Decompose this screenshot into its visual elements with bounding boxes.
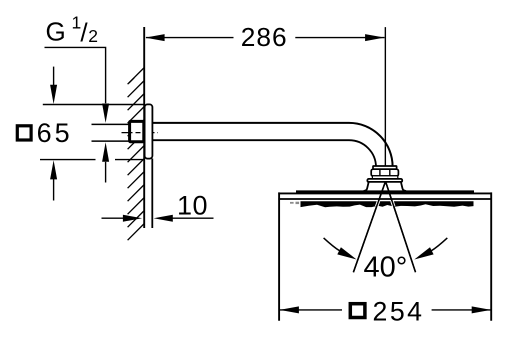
wall hatching [128,68,144,240]
right curved arrow of 40 dim [431,238,447,251]
shower head rim line [278,198,491,200]
10 dim left line + arrow [102,217,125,219]
centerline of pipe [122,132,159,134]
nozzle band [301,201,474,207]
shower arm top line [152,122,349,124]
shower arm bottom line [152,139,349,141]
shower arm inner bend [349,140,376,168]
shower head top thick dome band [296,190,474,193]
svg-text:10: 10 [177,190,208,220]
flange face extension line (for 10 dim) [151,159,153,229]
254 right arrow [472,306,491,313]
cone lip [367,179,402,182]
wall line (also left extension of 286 dim) [143,27,145,228]
svg-text:2: 2 [88,26,98,46]
svg-text:40°: 40° [364,252,408,284]
254 dim line [280,309,342,311]
wall flange escutcheon [145,104,153,158]
flare washer at arm end [373,166,397,169]
shower head right side + extension line [490,192,492,320]
40 deg left ray (lower part over band) [353,183,385,273]
square symbol of 254 [350,304,365,318]
40 deg right ray (lower part over band) [386,183,416,273]
65 dim top extension line [43,104,144,106]
286 left arrow [145,34,164,41]
shower head top thin line [278,192,491,194]
nut flats [379,169,381,176]
supply pipe stub behind wall [92,123,131,125]
40 deg left ray [353,183,385,273]
svg-text:G: G [46,17,66,47]
254 left arrow [280,306,299,313]
10 dim right arrow + line [154,215,173,222]
40 deg rays white halo through nozzle band [377,201,394,207]
nozzle band lead-in speckles [290,202,299,204]
svg-text:286: 286 [241,22,288,52]
lower washer [372,176,397,179]
svg-text:254: 254 [373,296,425,326]
65 dim bottom arrow [53,179,55,201]
G 1/2 lower arrow (up) [105,162,107,183]
G 1/2 leader [45,47,106,103]
286 dim line [146,37,234,39]
left curved arrow of 40 dim [324,238,340,251]
square symbol of 65 [17,126,31,140]
40 deg right ray [386,183,416,273]
union nut [371,169,398,176]
fitting square (concealed union behind wall) [130,121,144,141]
cone body [364,182,407,192]
centerline dash inside nut [382,172,388,174]
svg-text:65: 65 [37,118,73,148]
65 dim top arrow [53,67,55,86]
286 right arrow [365,34,384,41]
right extension line of 286 dim (to head center) [384,27,386,173]
G 1/2 leader arrow (down) [102,104,109,123]
svg-text:/: / [80,18,88,48]
shower arm outer bend [349,123,393,168]
65 dim bottom extension line [40,159,96,161]
shower head left side + extension line [278,192,280,320]
